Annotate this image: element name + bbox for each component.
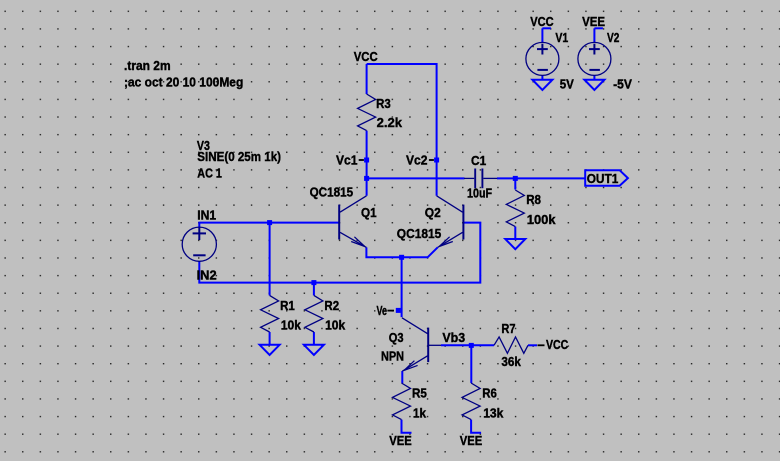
- svg-text:Ve: Ve: [377, 303, 388, 318]
- svg-text:VEE: VEE: [460, 433, 483, 448]
- svg-text:VEE: VEE: [582, 14, 605, 29]
- svg-text:R7: R7: [501, 321, 515, 336]
- svg-text:Q1: Q1: [361, 205, 377, 220]
- svg-text:QC1815: QC1815: [397, 226, 442, 241]
- svg-text:R6: R6: [482, 385, 497, 400]
- svg-text:.tran 2m: .tran 2m: [124, 58, 171, 73]
- svg-text:R8: R8: [526, 192, 541, 207]
- svg-text:Vb3: Vb3: [442, 330, 465, 345]
- svg-text:2.2k: 2.2k: [377, 115, 403, 130]
- svg-text:R5: R5: [412, 385, 427, 400]
- svg-text:Q3: Q3: [389, 330, 404, 345]
- svg-text:1k: 1k: [413, 405, 427, 420]
- svg-text:OUT1: OUT1: [587, 171, 619, 186]
- svg-text:5V: 5V: [560, 76, 574, 91]
- svg-text:V1: V1: [555, 30, 568, 45]
- svg-text:IN2: IN2: [197, 268, 217, 283]
- svg-text:VCC: VCC: [546, 337, 569, 352]
- svg-text:R1: R1: [280, 298, 295, 313]
- svg-text:Q2: Q2: [425, 205, 441, 220]
- svg-text:VCC: VCC: [354, 49, 378, 64]
- svg-text:R2: R2: [324, 298, 339, 313]
- svg-text:R3: R3: [376, 96, 391, 111]
- svg-text:10k: 10k: [281, 318, 302, 333]
- svg-text:Vc2: Vc2: [406, 153, 428, 168]
- svg-text:AC 1: AC 1: [197, 166, 222, 181]
- svg-text:VCC: VCC: [530, 14, 554, 29]
- svg-text:IN1: IN1: [197, 207, 216, 222]
- svg-text:-5V: -5V: [613, 76, 632, 91]
- svg-text:NPN: NPN: [381, 349, 404, 364]
- svg-text:SINE(0 25m 1k): SINE(0 25m 1k): [197, 149, 281, 164]
- svg-text:C1: C1: [471, 153, 486, 168]
- svg-text:VEE: VEE: [389, 433, 412, 448]
- svg-text:10k: 10k: [325, 318, 346, 333]
- svg-text:Vc1: Vc1: [336, 153, 358, 168]
- svg-text:;ac oct 20 10 100Meg: ;ac oct 20 10 100Meg: [124, 74, 243, 89]
- svg-text:36k: 36k: [501, 354, 521, 369]
- svg-text:13k: 13k: [483, 405, 504, 420]
- svg-text:QC1815: QC1815: [310, 185, 354, 200]
- svg-text:100k: 100k: [527, 212, 556, 227]
- svg-text:V2: V2: [607, 30, 619, 45]
- svg-text:10uF: 10uF: [467, 186, 492, 201]
